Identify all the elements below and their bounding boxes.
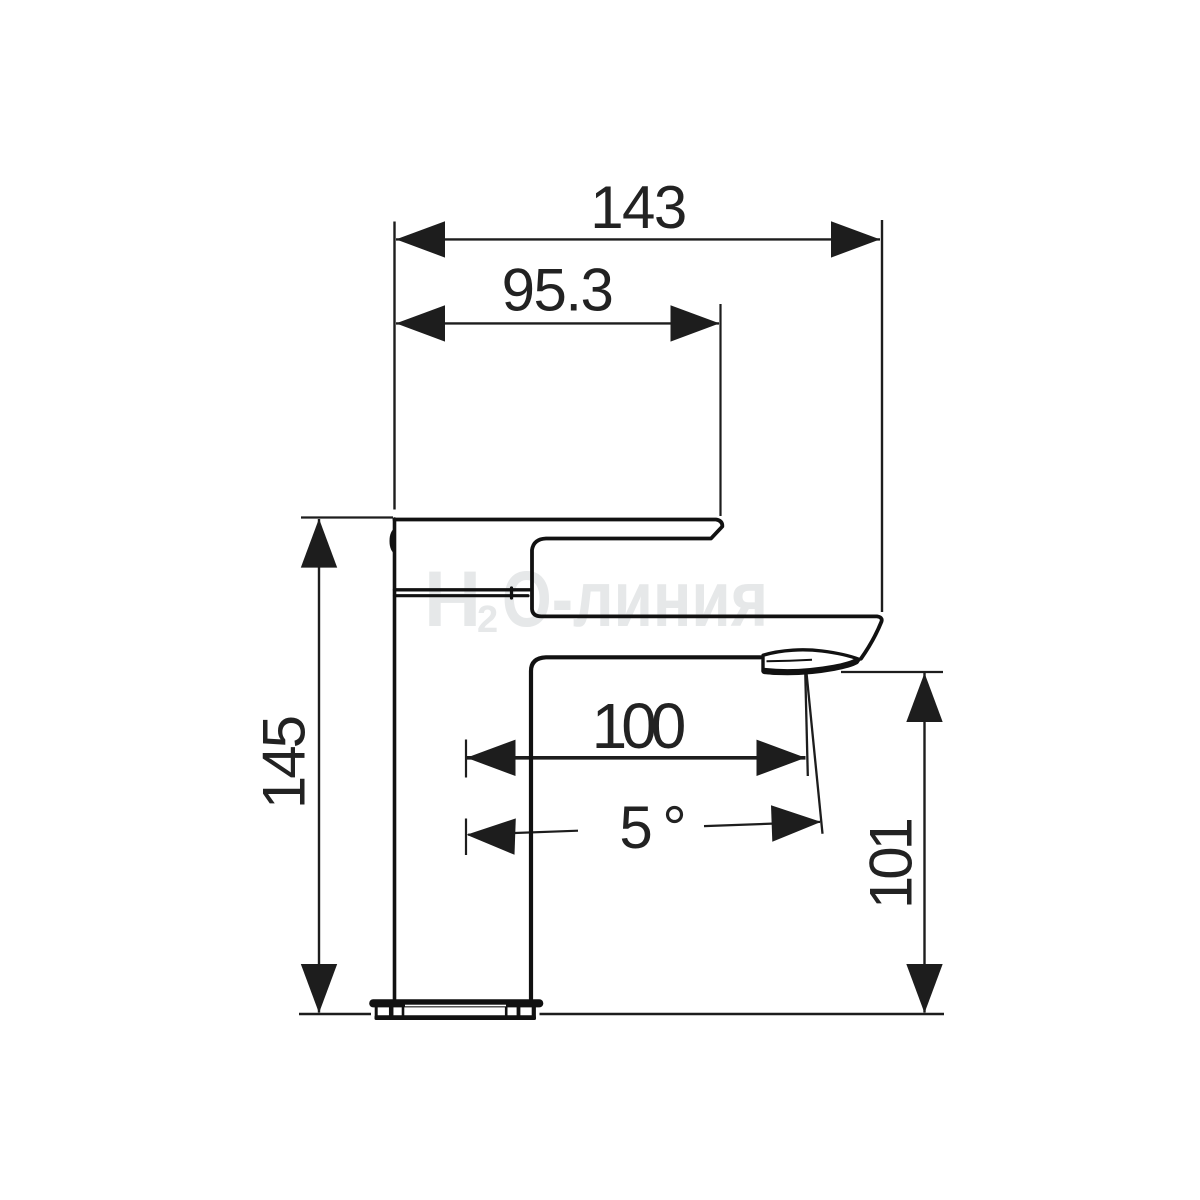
body left edge	[393, 519, 397, 999]
base under-plate bottom bar	[375, 1015, 537, 1020]
extension line right 95.3	[719, 304, 721, 516]
arrow 95.3 right	[671, 305, 720, 341]
dimension line 100	[467, 756, 806, 760]
extension tick left 100	[465, 740, 467, 778]
dimension line 5deg right segment	[704, 822, 820, 826]
leader tilted 5deg from aerator	[807, 673, 823, 834]
degree circle of 5deg label	[668, 808, 682, 822]
handle lever outline	[395, 520, 882, 659]
svg-text:100: 100	[592, 690, 685, 762]
arrow 143 right	[831, 221, 880, 257]
svg-text:101: 101	[858, 819, 925, 909]
arrow 5deg right	[771, 805, 821, 841]
arrow 5deg left	[467, 818, 516, 854]
aerator inner line	[767, 660, 813, 661]
arrow 101 bottom	[906, 964, 942, 1013]
extension line top 101	[841, 671, 943, 673]
dimension line 145	[318, 519, 320, 1013]
extension line top 145	[301, 516, 393, 518]
body cap line	[395, 594, 529, 597]
base plate top bar	[369, 999, 543, 1007]
svg-text:5: 5	[619, 794, 652, 861]
arrow 145 top	[301, 519, 337, 568]
arrow 100 right	[757, 740, 806, 776]
faucet outline	[395, 519, 882, 999]
dimension graphics	[299, 220, 944, 1014]
arrowheads	[301, 221, 943, 1013]
base plate bar slit	[405, 1005, 506, 1007]
aerator body	[763, 650, 859, 673]
svg-text:95.3: 95.3	[502, 257, 613, 324]
handle/body junction tick	[510, 588, 513, 598]
extension line right 143	[881, 220, 883, 612]
svg-text:2: 2	[477, 599, 498, 641]
extension tick left 5deg	[465, 819, 467, 856]
svg-text:H: H	[424, 554, 481, 643]
ground extension line	[299, 1013, 371, 1015]
svg-text:143: 143	[590, 174, 686, 241]
extension line left (143/95.3)	[393, 222, 395, 510]
arrow 145 bottom	[301, 964, 337, 1013]
handle bottom line	[395, 588, 531, 591]
base mounting ticks	[376, 1007, 534, 1016]
dimension line 101	[923, 673, 925, 1013]
watermark H2O-линия	[424, 554, 768, 643]
leader vertical from aerator	[805, 675, 808, 777]
arrow 143 left	[396, 221, 445, 257]
dimension line 143	[396, 238, 880, 240]
spout bottom line	[531, 657, 761, 999]
arrow 101 top	[906, 673, 942, 722]
dimension texts	[251, 174, 925, 909]
set-screw bump on handle left edge	[390, 528, 396, 555]
dimension line 5deg left segment	[468, 831, 578, 835]
svg-text:145: 145	[251, 717, 318, 809]
dimension line 95.3	[396, 322, 719, 324]
aerator bottom thick band	[765, 661, 857, 672]
arrow 95.3 left	[396, 305, 445, 341]
arrow 100 left	[467, 740, 516, 776]
svg-text:O-линия: O-линия	[502, 554, 768, 643]
